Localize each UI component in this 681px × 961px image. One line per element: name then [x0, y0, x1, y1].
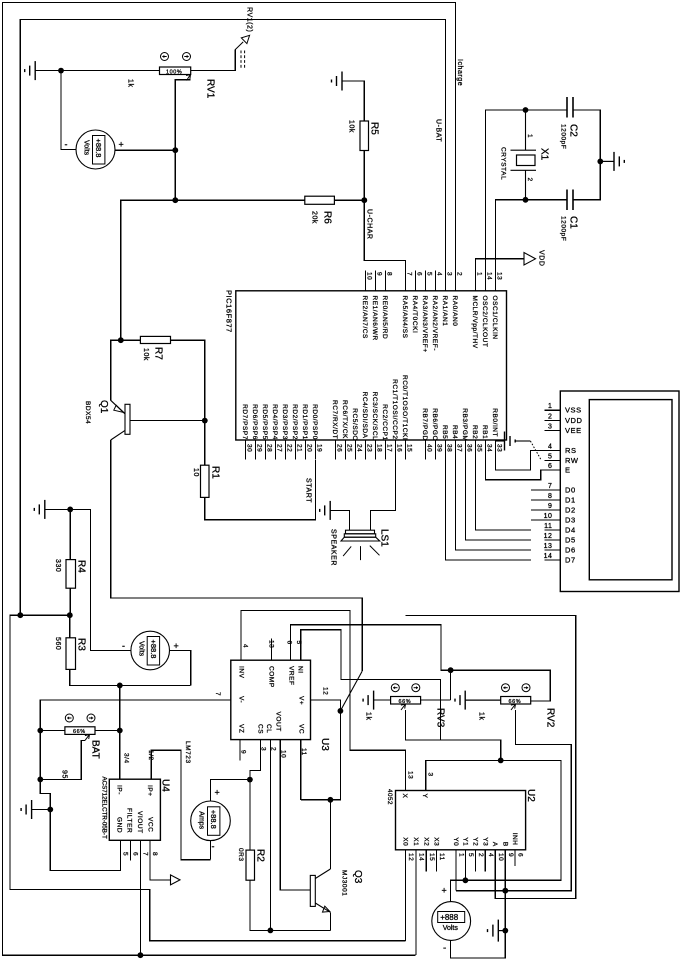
svg-text:START: START: [305, 478, 312, 503]
wire node down through R2: [249, 780, 251, 851]
ground G9 (RV2): [455, 691, 501, 710]
svg-text:+88.8: +88.8: [94, 139, 103, 158]
pin 2 stub (top, RA0/AN0): [455, 271, 457, 291]
svg-text:VOUT: VOUT: [275, 712, 282, 732]
svg-text:V+: V+: [298, 696, 305, 705]
svg-text:9: 9: [548, 503, 552, 510]
svg-text:36: 36: [465, 444, 472, 452]
svg-text:2: 2: [526, 178, 533, 182]
wire Icharge (RA0 net): [3, 3, 456, 956]
wire R4 top: [69, 509, 71, 559]
ground G1 (top-left): [25, 61, 36, 80]
wire OSC2 to crystal pin1 node: [486, 110, 526, 271]
wire tap to divider: [20, 614, 70, 616]
svg-text:28: 28: [265, 444, 272, 452]
node VC / Q3 collector: [328, 797, 334, 803]
node Q1 base / R1: [202, 418, 208, 424]
U2 pin Y3 stub: [484, 850, 486, 872]
svg-text:RB4: RB4: [451, 425, 458, 439]
svg-text:A: A: [491, 842, 498, 847]
pin 9 VZ stub: [239, 740, 241, 761]
svg-text:GND: GND: [116, 817, 123, 833]
wire PA1- stub: [210, 841, 212, 860]
U2 pin X2 stub: [425, 850, 427, 872]
svg-text:RC4/SDI/SDA: RC4/SDI/SDA: [361, 392, 368, 439]
svg-text:6: 6: [517, 853, 524, 857]
wire node to Q1 emitter: [111, 340, 121, 400]
wire OSC1 to crystal pin2 node: [496, 200, 526, 271]
wiper arrow BAT: [85, 734, 90, 740]
svg-text:X3: X3: [432, 837, 439, 846]
wire U-BAT (RA1 net): [20, 20, 445, 616]
svg-text:U-BAT: U-BAT: [435, 119, 442, 142]
svg-text:2: 2: [270, 747, 277, 751]
RV2 adjust buttons: [502, 684, 531, 692]
svg-text:+: +: [442, 886, 447, 896]
svg-text:27: 27: [275, 444, 282, 452]
pin 39 stub (bottom, RB6/PGC): [435, 440, 437, 460]
wire C2 to gnd riser: [573, 110, 600, 161]
svg-text:R7: R7: [153, 347, 164, 360]
svg-text:10: 10: [280, 750, 287, 758]
wire V+ stub: [311, 700, 341, 711]
pin 38 stub (bottom, RB5): [445, 440, 447, 460]
svg-text:RA5/AN4/SS: RA5/AN4/SS: [401, 296, 408, 339]
svg-text:CS: CS: [257, 724, 264, 734]
wire gnd branch to PV2-: [70, 509, 131, 650]
U2 pin X1 to Icharge net: [415, 850, 417, 955]
node R2/CL/emitter: [268, 928, 274, 934]
svg-text:RC7/RX/DT: RC7/RX/DT: [331, 400, 338, 439]
pin 26 stub (bottom, RC7/RX/DT): [335, 440, 337, 460]
svg-text:66%: 66%: [73, 729, 86, 735]
svg-text:3: 3: [445, 272, 452, 276]
svg-text:RV1(2): RV1(2): [246, 7, 253, 32]
svg-text:VC: VC: [298, 724, 305, 734]
wire RB5 to D7: [446, 440, 532, 560]
svg-text:10k: 10k: [348, 120, 355, 133]
svg-text:RB0/INT: RB0/INT: [491, 408, 498, 437]
svg-text:RB5: RB5: [441, 425, 448, 439]
svg-text:+88.8: +88.8: [149, 640, 158, 659]
pin 6 FILTER stub: [130, 840, 132, 860]
svg-text:24: 24: [355, 444, 362, 452]
svg-text:4052: 4052: [386, 789, 393, 805]
svg-text:-: -: [65, 140, 68, 150]
svg-text:14: 14: [544, 553, 553, 560]
U2 pin Y to RV-line: [426, 760, 501, 790]
wire voltmeter3 minus: [451, 931, 506, 958]
svg-text:3/4: 3/4: [123, 753, 130, 764]
wire RC1 to speaker right: [371, 440, 396, 530]
node G6 / meter branch: [67, 507, 73, 513]
pin 5 stub (top, RA3/AN3/VREF+): [425, 271, 427, 291]
wire INV to U2 X: [241, 610, 406, 790]
wire G2 to R5 top: [342, 81, 364, 121]
svg-text:11: 11: [438, 853, 445, 861]
svg-text:RD6/PSP6: RD6/PSP6: [251, 404, 258, 440]
pin 24 stub (bottom, RC5/SDO): [355, 440, 357, 460]
wire gnd riser to C1: [573, 161, 600, 199]
wire RB2 to D4: [476, 440, 532, 530]
node battery gnd: [502, 928, 508, 934]
pin 7 stub (top, RA5/AN4/SS): [405, 271, 407, 291]
RV3 adjust buttons: [391, 684, 420, 692]
wire G8 to RV3 left: [374, 699, 391, 701]
svg-text:+: +: [174, 641, 179, 651]
pin 18 stub (bottom, RC3/SCK/SCL): [375, 440, 377, 460]
svg-text:560: 560: [54, 637, 61, 650]
pin 9 stub (top, RE1/AN6/WR): [375, 271, 377, 291]
node B / RV2 wiper net: [502, 888, 508, 894]
wire RV1 right to probe: [191, 50, 236, 71]
svg-text:X: X: [401, 794, 408, 799]
node V+/Q1 collector: [338, 708, 344, 714]
svg-text:RE0/AN5/RD: RE0/AN5/RD: [381, 296, 388, 340]
svg-text:8: 8: [385, 272, 392, 276]
IC U2 4052 body: [396, 791, 526, 850]
svg-text:4: 4: [487, 853, 494, 857]
svg-text:35: 35: [475, 444, 482, 452]
pin 14 stub (top, OSC2/CLKOUT): [485, 271, 487, 291]
svg-text:RB2: RB2: [471, 425, 478, 439]
svg-text:RB6/PGC: RB6/PGC: [431, 408, 438, 440]
wiper arrow RV3: [401, 704, 406, 710]
svg-text:VCC: VCC: [147, 817, 154, 832]
switch lever to RW: [530, 441, 541, 460]
LCD pin 8 stub (D1): [531, 499, 560, 501]
svg-text:Volts: Volts: [83, 140, 90, 156]
svg-text:R2: R2: [255, 849, 266, 862]
svg-text:ACS712ELCTR-05B-T: ACS712ELCTR-05B-T: [101, 777, 108, 839]
svg-text:16: 16: [395, 444, 402, 452]
svg-text:IP+: IP+: [146, 785, 153, 797]
U2 pin Y0 down: [455, 850, 457, 891]
speaker LS1: [341, 530, 380, 560]
wire B node to gnd node: [504, 891, 506, 931]
svg-text:RD7/PSP7: RD7/PSP7: [241, 404, 248, 440]
svg-text:RS: RS: [565, 446, 577, 455]
svg-text:Q1: Q1: [98, 400, 109, 414]
pin 21 stub (bottom, RD2/PSP2): [295, 440, 297, 460]
wire G6 stem: [45, 508, 70, 510]
wire G5 to speaker left: [330, 510, 349, 530]
pin 23 stub (bottom, RC4/SDI/SDA): [365, 440, 367, 460]
wire V- run to BAT left: [40, 700, 231, 779]
wire G1 stem to node: [35, 70, 61, 72]
pin 17 stub (bottom, RC2/CCP1): [385, 440, 387, 460]
svg-text:D0: D0: [565, 485, 576, 494]
svg-text:LM723: LM723: [184, 741, 191, 764]
svg-text:R6: R6: [322, 211, 333, 224]
pin 29 stub (bottom, RD6/PSP6): [255, 440, 257, 460]
svg-text:10: 10: [544, 513, 553, 520]
node G7: [47, 807, 53, 813]
pin 8 stub (top, RE0/AN5/RD): [385, 271, 387, 291]
wire R7 left: [121, 339, 141, 341]
node crystal pin1 / C2: [523, 107, 529, 113]
U2 pin INH stub: [514, 850, 516, 866]
node VREF branch: [448, 667, 454, 673]
voltage probe RV1(2): [235, 35, 249, 49]
pin 16 stub (bottom, RC1/T1OSI/CCP2): [395, 440, 397, 460]
svg-text:9: 9: [240, 750, 247, 754]
resistor R7 body: [140, 336, 170, 343]
wire Q1 collector down: [111, 440, 363, 671]
wire Q3 collector up: [329, 800, 331, 869]
transistor Q3 MJ3001 (NPN): [310, 869, 330, 912]
pin 37 stub (bottom, RB4): [455, 440, 457, 460]
svg-text:VDD: VDD: [538, 250, 545, 266]
svg-text:INH: INH: [511, 833, 518, 846]
svg-text:1: 1: [458, 853, 465, 857]
svg-text:RD5/PSP5: RD5/PSP5: [261, 404, 268, 440]
probe dashed marks: [241, 51, 245, 70]
svg-text:RD0/PSP0: RD0/PSP0: [311, 404, 318, 440]
svg-text:-: -: [122, 641, 125, 651]
resistor R2 body: [246, 850, 255, 880]
svg-text:R3: R3: [76, 638, 87, 651]
U2 pin B down: [504, 850, 506, 891]
potentiometer BAT body: [65, 727, 95, 735]
svg-text:+88.8: +88.8: [209, 810, 218, 829]
wire R3 top: [69, 615, 71, 638]
svg-text:D7: D7: [565, 556, 576, 565]
svg-text:C2: C2: [568, 124, 579, 137]
svg-text:10k: 10k: [142, 348, 149, 361]
U2 pin A to RC0 net: [406, 615, 576, 898]
wire VOUT to Q3 base: [280, 740, 310, 890]
svg-text:13: 13: [268, 640, 275, 648]
svg-text:-: -: [443, 943, 446, 954]
svg-text:15: 15: [428, 853, 435, 861]
wire IP+ around ammeter: [151, 750, 210, 859]
pin 30 stub (bottom, RD7/PSP7): [245, 440, 247, 460]
svg-text:RC1/T1OSI/CCP2: RC1/T1OSI/CCP2: [391, 379, 398, 439]
ground G10 (voltmeter3): [488, 920, 506, 942]
U2 pin X3 stub: [435, 850, 437, 872]
svg-text:Y1: Y1: [461, 837, 468, 846]
svg-text:34: 34: [485, 444, 492, 452]
wire Q1 collector diagonal: [340, 671, 362, 711]
svg-text:COMP: COMP: [268, 666, 275, 688]
svg-text:+: +: [215, 788, 220, 798]
svg-text:RA2/AN2/VREF-: RA2/AN2/VREF-: [431, 296, 438, 352]
svg-text:10: 10: [192, 468, 199, 477]
svg-text:330: 330: [54, 559, 61, 572]
svg-text:RW: RW: [565, 456, 579, 465]
svg-text:V-: V-: [238, 696, 245, 703]
wire R2 bottom run: [250, 880, 331, 930]
ground G4 (crystal): [600, 152, 624, 171]
pin 25 stub (bottom, RC6/TX/CK): [345, 440, 347, 460]
svg-text:6: 6: [415, 272, 422, 276]
svg-text:D5: D5: [565, 536, 576, 545]
svg-text:14: 14: [485, 272, 492, 280]
node R6-line / wiper-line: [172, 197, 178, 203]
resistor R5 body: [360, 121, 369, 151]
svg-text:MCLR/Vpp/THV: MCLR/Vpp/THV: [471, 296, 478, 349]
svg-text:7: 7: [405, 272, 412, 276]
svg-text:X2: X2: [422, 837, 429, 846]
wire G7 down to U4 GND: [50, 810, 120, 871]
svg-text:1/2: 1/2: [147, 750, 154, 761]
LCD pin 5 stub (RW): [544, 459, 560, 461]
wire MCLR to VDD: [476, 259, 525, 271]
svg-text:7: 7: [214, 692, 221, 696]
potentiometer RV2 body: [501, 697, 531, 705]
svg-text:5: 5: [295, 641, 302, 645]
svg-text:2: 2: [455, 272, 462, 276]
svg-text:BAT: BAT: [90, 740, 101, 759]
svg-text:RB7/PGD: RB7/PGD: [421, 408, 428, 440]
svg-text:D6: D6: [565, 546, 576, 555]
capacitor C1: [567, 190, 573, 211]
wire R3 bottom to BAT+ node: [70, 669, 191, 685]
svg-text:Volts: Volts: [443, 925, 459, 932]
svg-text:1: 1: [475, 272, 482, 276]
svg-text:RA0/AN0: RA0/AN0: [451, 296, 458, 327]
pin 36 stub (bottom, RB3/PGM): [465, 440, 467, 460]
svg-text:7: 7: [142, 852, 149, 856]
svg-text:BDX54: BDX54: [84, 401, 91, 424]
svg-text:9: 9: [507, 853, 514, 857]
svg-text:VEE: VEE: [565, 426, 582, 435]
svg-text:CRYSTAL: CRYSTAL: [500, 147, 507, 180]
svg-text:VIOUT: VIOUT: [136, 811, 143, 834]
pin 13 stub (top, OSC1/CLKIN): [495, 271, 497, 291]
ground G7 (battery): [21, 800, 32, 819]
svg-text:Icharge: Icharge: [456, 59, 463, 86]
svg-text:39: 39: [435, 444, 442, 452]
pin 40 stub (bottom, RB7/PGD): [425, 440, 427, 460]
wire RV2 wiper net: [456, 710, 571, 891]
ground G6 (R4 top): [34, 500, 45, 519]
wire CS jog to node: [250, 740, 261, 780]
svg-text:X1: X1: [412, 837, 419, 846]
pin 13 COMP stub: [271, 639, 273, 661]
U2 pin X0 to U-BAT net: [405, 850, 407, 941]
svg-text:12: 12: [322, 687, 329, 695]
svg-text:33: 33: [495, 444, 502, 452]
LCD pin 11 stub (D4): [544, 529, 560, 531]
wire RB1 to E: [486, 440, 545, 480]
RV1 adjust buttons: [161, 53, 191, 61]
svg-text:LS1: LS1: [379, 529, 390, 547]
svg-text:21: 21: [295, 444, 302, 452]
svg-text:20k: 20k: [311, 211, 318, 224]
svg-text:Volts: Volts: [137, 641, 144, 657]
svg-text:19: 19: [315, 444, 322, 452]
svg-text:Y0: Y0: [452, 837, 459, 846]
svg-text:5: 5: [548, 453, 552, 460]
wiper arrow RV2: [511, 704, 516, 710]
ammeter PA1 (+88.8 Amps): [191, 801, 231, 841]
svg-text:2: 2: [477, 853, 484, 857]
svg-text:12: 12: [407, 853, 414, 861]
wire node to C1 left: [526, 199, 568, 201]
wire R1 bottom START: [205, 460, 316, 520]
svg-text:RA1/AN1: RA1/AN1: [441, 296, 448, 327]
svg-text:B: B: [501, 842, 508, 847]
svg-text:30: 30: [245, 444, 252, 452]
svg-text:1200pF: 1200pF: [560, 216, 567, 241]
LCD pin 10 stub (D3): [531, 519, 560, 521]
wire RV3 right terminal: [421, 699, 451, 701]
svg-text:0R3: 0R3: [237, 848, 244, 862]
svg-text:1k: 1k: [478, 712, 485, 721]
svg-text:RC2/CCP1: RC2/CCP1: [381, 404, 388, 441]
svg-text:RD2/PSP2: RD2/PSP2: [291, 404, 298, 440]
svg-text:RD1/PSP1: RD1/PSP1: [301, 404, 308, 440]
svg-text:95: 95: [61, 770, 68, 779]
power arrow U4 VCC: [171, 875, 181, 885]
LCD pin 3 stub (VEE): [544, 430, 560, 432]
svg-text:5: 5: [425, 272, 432, 276]
svg-text:OSC2/CLKOUT: OSC2/CLKOUT: [481, 296, 488, 348]
pin 6 stub (top, RA4/T0CKI): [415, 271, 417, 291]
svg-text:U3: U3: [319, 738, 330, 751]
wiper arrow RV1: [186, 75, 190, 81]
pin 28 stub (bottom, RD5/PSP5): [265, 440, 267, 460]
svg-text:VDD: VDD: [565, 416, 583, 425]
svg-text:R1: R1: [210, 466, 221, 479]
svg-text:D4: D4: [565, 526, 576, 535]
svg-text:RC6/TX/CK: RC6/TX/CK: [341, 400, 348, 439]
svg-text:RC3/SCK/SCL: RC3/SCK/SCL: [371, 392, 378, 441]
svg-text:38: 38: [445, 444, 452, 452]
svg-text:3: 3: [548, 424, 552, 431]
wire BAT left terminal: [40, 730, 65, 732]
svg-text:MJ3001: MJ3001: [341, 870, 348, 896]
svg-text:6: 6: [286, 641, 293, 645]
svg-text:1k: 1k: [365, 712, 372, 721]
svg-text:E: E: [565, 466, 571, 475]
svg-text:RE2/AN7/CS: RE2/AN7/CS: [361, 296, 368, 340]
svg-text:RV1: RV1: [205, 79, 216, 99]
svg-text:RV3: RV3: [435, 708, 446, 728]
svg-text:RD3/PSP3: RD3/PSP3: [281, 404, 288, 440]
voltmeter PV2 (+88.8 Volts): [131, 631, 170, 670]
ground G2 (R5 top): [332, 72, 343, 91]
LCD module body: [560, 391, 679, 592]
svg-text:SPEAKER: SPEAKER: [330, 529, 337, 566]
svg-text:X0: X0: [402, 837, 409, 846]
potentiometer RV3 body: [391, 697, 421, 705]
svg-text:D3: D3: [565, 515, 576, 524]
wire RV1 wiper down: [175, 80, 190, 200]
svg-text:R4: R4: [76, 560, 87, 573]
pin 3 stub (top, RA1/AN1): [445, 271, 447, 291]
svg-text:13: 13: [544, 543, 553, 550]
svg-text:8: 8: [548, 493, 552, 500]
pin 10 stub (top, RE2/AN7/CS): [365, 271, 367, 291]
U2 pin Y1 down: [464, 850, 466, 881]
node RV1-left / G1: [58, 68, 64, 74]
wire node down to voltmeter-: [61, 71, 76, 150]
svg-text:VREF: VREF: [288, 666, 295, 686]
svg-text:NI: NI: [297, 666, 304, 674]
wire IP- pin: [119, 731, 121, 780]
svg-text:11: 11: [544, 523, 552, 530]
wire BAT wiper: [40, 740, 85, 779]
wire VIOUT to Icharge net: [139, 840, 141, 955]
node R4/R3: [67, 612, 73, 618]
wire Q3 emitter down: [329, 912, 331, 930]
svg-text:INV: INV: [238, 666, 245, 679]
IC U1 PIC16F877 body: [236, 291, 507, 440]
wire RB4 to D6: [456, 440, 532, 550]
